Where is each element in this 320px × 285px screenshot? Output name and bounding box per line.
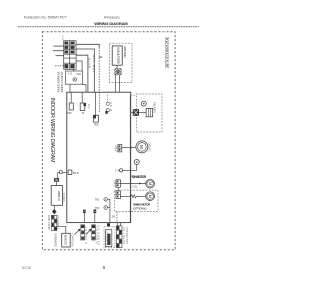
wire to fan motor bbox=[120, 183, 145, 185]
swing connector wire to bus bbox=[116, 212, 118, 223]
svg-text:CN-S: CN-S bbox=[109, 102, 113, 111]
svg-text:FAN MOTOR: FAN MOTOR bbox=[132, 175, 147, 179]
display connector grid bbox=[51, 215, 56, 230]
thermostat terminal circle bbox=[119, 169, 122, 172]
relay box A bbox=[69, 103, 73, 110]
svg-text:REMOTE: REMOTE bbox=[63, 235, 67, 246]
svg-text:302180022013E: 302180022013E bbox=[163, 37, 169, 69]
terminal block top stub wire bbox=[62, 36, 64, 41]
svg-text:CN-DIS: CN-DIS bbox=[62, 193, 65, 202]
svg-text:CN-REMOTE: CN-REMOTE bbox=[53, 233, 56, 247]
fan motor M2 bbox=[146, 179, 155, 188]
swing motor dashed box bbox=[115, 190, 159, 211]
remote control box bbox=[62, 233, 70, 247]
svg-text:TH2: TH2 bbox=[95, 207, 100, 210]
svg-text:N L: N L bbox=[87, 104, 90, 110]
header rule bbox=[18, 26, 199, 28]
svg-text:(OPTION): (OPTION) bbox=[71, 234, 74, 247]
wire to swing motor bbox=[138, 195, 146, 197]
connector stack 1 bbox=[81, 225, 85, 240]
swing connector box bbox=[116, 191, 120, 199]
svg-text:(VENT): (VENT) bbox=[148, 143, 151, 152]
power cord box bbox=[65, 71, 82, 84]
relay box B bbox=[80, 103, 85, 111]
wires from bus to grid 7 bbox=[117, 223, 119, 226]
svg-text:M: M bbox=[148, 182, 152, 185]
sensor lamp circle bbox=[134, 160, 139, 165]
svg-text:M: M bbox=[138, 145, 144, 149]
wire TB1 row3 to board bbox=[76, 55, 88, 92]
thermistor 2 bbox=[104, 206, 108, 210]
svg-text:DISPLAY: DISPLAY bbox=[57, 191, 61, 201]
svg-text:(SUPPLY CORD): (SUPPLY CORD) bbox=[60, 72, 64, 93]
resistor zigzag bbox=[120, 195, 137, 198]
wire power cord box to board bbox=[69, 84, 71, 92]
wire TB1 to power cord box bbox=[76, 61, 82, 71]
sensor wire L bbox=[130, 165, 136, 171]
svg-text:BLK: BLK bbox=[99, 56, 103, 59]
optional heater dashed box bbox=[109, 43, 132, 82]
svg-text:1B: 1B bbox=[68, 73, 72, 76]
wire label box 1 bbox=[83, 210, 86, 213]
svg-text:TAB: TAB bbox=[76, 73, 81, 76]
svg-text:CN-F: CN-F bbox=[112, 180, 115, 187]
svg-text:TH1: TH1 bbox=[95, 199, 100, 202]
svg-text:CN-DISPLA: CN-DISPLA bbox=[56, 215, 59, 229]
optional module dashed box bbox=[136, 94, 162, 132]
fan motor connector box bbox=[116, 180, 120, 187]
power supply wire L1 bbox=[54, 45, 64, 47]
svg-text:Y1: Y1 bbox=[81, 111, 84, 115]
svg-text:BLUE: BLUE bbox=[87, 58, 91, 68]
arrow to stack 1 bbox=[75, 229, 81, 234]
dashed stub at board corner bbox=[131, 94, 137, 96]
heater element bbox=[112, 46, 122, 65]
wire sensor to display box bbox=[56, 182, 58, 186]
svg-text:C01: C01 bbox=[133, 184, 139, 188]
wire grid to remote box bbox=[57, 226, 66, 233]
wire TB1 row1 to board bbox=[76, 44, 99, 47]
svg-text:SW: SW bbox=[112, 217, 116, 219]
svg-text:OPT'L ONLY: OPT'L ONLY bbox=[123, 46, 127, 58]
swing motor M3 bbox=[146, 192, 155, 201]
wire power cord box right to board bbox=[82, 85, 86, 93]
dash-dot diagram border bbox=[42, 32, 175, 250]
dashed wire inside board bbox=[98, 92, 100, 113]
terminal block TB1 filled cells bbox=[64, 42, 74, 69]
thermistor 1 bbox=[104, 198, 108, 202]
svg-text:(OPTIONAL): (OPTIONAL) bbox=[133, 206, 147, 210]
svg-text:CN-DISP B: CN-DISP B bbox=[84, 227, 86, 244]
svg-text:RY2: RY2 bbox=[94, 123, 99, 127]
svg-text:PW: PW bbox=[67, 111, 72, 115]
power supply wire L3 bbox=[56, 55, 64, 57]
right trunk wire bbox=[129, 95, 131, 222]
svg-text:M: M bbox=[148, 195, 152, 198]
thermostat wire bbox=[123, 169, 131, 171]
display board box bbox=[51, 186, 62, 206]
sensor black box bbox=[54, 178, 59, 182]
svg-text:CONNECTOR: CONNECTOR bbox=[125, 227, 128, 244]
switch wire from board edge bbox=[57, 172, 66, 174]
thermal cutout symbol bbox=[115, 69, 122, 76]
thermistor wires bbox=[108, 199, 110, 222]
svg-text:WIRING DIAGRAM: WIRING DIAGRAM bbox=[94, 21, 128, 26]
transformer box with X bbox=[133, 109, 139, 116]
ground circle symbol bbox=[73, 78, 76, 81]
svg-text:6: 6 bbox=[103, 265, 106, 270]
stub between fan and swing connectors bbox=[117, 187, 119, 191]
wire down to sensor blob bbox=[56, 173, 58, 179]
svg-text:INDOOR WIRING DIAGRAM: INDOOR WIRING DIAGRAM bbox=[49, 98, 55, 164]
wire TB1 row2 to board bbox=[76, 49, 94, 92]
svg-text:61716: 61716 bbox=[22, 266, 31, 270]
terminal block TB1 grid bbox=[64, 41, 76, 70]
svg-text:CN-V: CN-V bbox=[114, 146, 117, 152]
relay box C bbox=[93, 115, 98, 122]
svg-text:Publication No. 5995A77577: Publication No. 5995A77577 bbox=[24, 16, 67, 20]
svg-text:SENSOR: SENSOR bbox=[105, 232, 107, 245]
module lamp circle bbox=[141, 101, 146, 106]
heater lead rect to cutout bbox=[116, 65, 118, 68]
connector circles on board bbox=[106, 102, 109, 105]
connector stack 2 bbox=[92, 225, 96, 240]
heater bottom leads to board bbox=[114, 75, 116, 92]
svg-text:YEL/GRN: YEL/GRN bbox=[152, 102, 156, 113]
module connector bbox=[146, 108, 153, 116]
svg-text:HEATER: HEATER bbox=[116, 48, 120, 65]
wire from bus to sensor connector bbox=[108, 222, 110, 225]
switch square on board bbox=[68, 170, 72, 175]
wire to vent motor bbox=[122, 146, 136, 148]
display wire down bbox=[54, 205, 56, 209]
power supply wire L2 bbox=[53, 50, 64, 52]
svg-text:CN-LOADS: CN-LOADS bbox=[122, 227, 125, 244]
connector grid 7 bbox=[116, 226, 122, 248]
jumper box on wire bbox=[60, 171, 63, 174]
svg-text:CN-POWER: CN-POWER bbox=[96, 225, 99, 245]
field wiring dashed wire bbox=[55, 65, 64, 67]
wire TB1 bottom to power cord box bbox=[73, 69, 75, 71]
connector grid 6 bbox=[107, 223, 110, 226]
connector diamond black bbox=[52, 209, 56, 214]
vent motor M1 bbox=[136, 141, 148, 153]
svg-text:B16: B16 bbox=[73, 171, 79, 175]
arrow to stack 2 bbox=[86, 229, 91, 234]
svg-text:DISP CONN: DISP CONN bbox=[47, 215, 50, 229]
svg-text:FFRS0822S1: FFRS0822S1 bbox=[104, 15, 120, 19]
svg-text:(POWER CORD): (POWER CORD) bbox=[57, 72, 61, 93]
main control board outline bbox=[67, 92, 131, 222]
wire transformer to connector bbox=[139, 112, 146, 114]
wire label box 2 bbox=[93, 210, 96, 214]
svg-text:CN: CN bbox=[115, 169, 120, 173]
vent motor connector box bbox=[118, 145, 122, 152]
wire trunk to transformer bbox=[130, 112, 133, 114]
svg-text:BLK WHT: BLK WHT bbox=[92, 55, 96, 73]
